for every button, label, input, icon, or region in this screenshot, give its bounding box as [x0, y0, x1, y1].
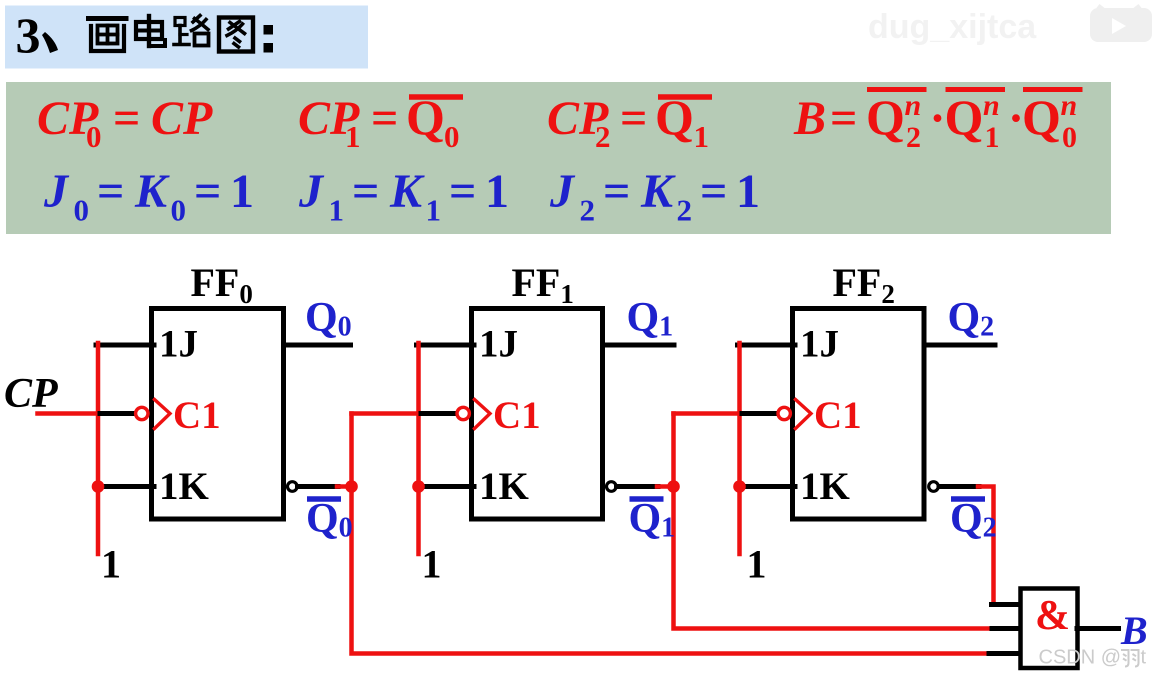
svg-text:1K: 1K	[159, 465, 210, 508]
svg-text:K: K	[134, 165, 170, 218]
svg-text:1: 1	[230, 165, 254, 218]
svg-text:K: K	[389, 165, 425, 218]
svg-text:FF0: FF0	[191, 260, 253, 309]
svg-text:Q: Q	[866, 89, 905, 145]
wire net Q1bar to C2 and AND gate	[674, 414, 994, 629]
wire Q0 output	[286, 343, 351, 348]
wire C0 clock stub	[100, 411, 136, 416]
svg-text:Q1: Q1	[627, 295, 674, 343]
svg-text:1: 1	[485, 165, 509, 218]
svg-text:0: 0	[74, 193, 90, 228]
svg-text:2: 2	[580, 193, 596, 228]
inverter bubble Q0bar	[288, 482, 298, 492]
svg-text:2: 2	[677, 193, 693, 228]
title hanzi tu (diagram)	[219, 18, 253, 52]
title fullwidth colon	[264, 25, 274, 35]
svg-text:=: =	[700, 165, 727, 218]
faint bilibili watermark top right	[868, 6, 1152, 46]
wire CP input red	[38, 411, 105, 416]
svg-text:1J: 1J	[479, 323, 518, 366]
wire K2 input	[738, 484, 796, 489]
svg-text:Q: Q	[945, 89, 984, 145]
svg-text:n: n	[905, 89, 922, 122]
flip-flop FF1 box	[472, 309, 603, 520]
wire J0 input	[96, 343, 154, 348]
circuit group	[38, 309, 1119, 669]
svg-text:Q2: Q2	[950, 496, 997, 544]
wire J1 input	[417, 343, 475, 348]
svg-text:&: &	[1035, 593, 1070, 639]
junction dot Q0bar node	[345, 480, 358, 493]
svg-text:1: 1	[329, 193, 345, 228]
svg-text:=: =	[830, 92, 857, 145]
junction dot node1 FF2	[733, 480, 746, 493]
svg-text:2: 2	[906, 121, 921, 154]
wire net Q2bar elbow to AND gate	[978, 487, 994, 605]
svg-text:Q0: Q0	[306, 496, 353, 544]
svg-text:Q1: Q1	[629, 496, 676, 544]
clock bubble FF2	[778, 407, 790, 419]
svg-text:CP: CP	[4, 371, 58, 417]
svg-text:=: =	[620, 92, 647, 145]
svg-text:1: 1	[101, 542, 121, 587]
AND gate U1 box	[1021, 589, 1078, 669]
svg-text:Q2: Q2	[948, 295, 995, 343]
wire net Q0bar to C1 and AND gate	[352, 414, 992, 654]
wire K0 input	[96, 484, 154, 489]
wire Q1bar stub black	[617, 484, 659, 489]
svg-text:2: 2	[595, 119, 611, 154]
dynamic clock chevron FF1	[475, 400, 491, 429]
junction dot Q1bar node	[667, 480, 680, 493]
wire C1 clock stub FF1	[421, 411, 457, 416]
svg-text:FF2: FF2	[833, 260, 895, 309]
clock bubble FF1	[457, 407, 469, 419]
wire CP2 horizontal to FF2 clock	[674, 411, 745, 416]
svg-text:1K: 1K	[800, 465, 851, 508]
svg-text:1K: 1K	[479, 465, 530, 508]
junction dot node1 FF0	[92, 480, 105, 493]
flip-flop FF2 box	[793, 309, 925, 520]
wire K1 input	[417, 484, 475, 489]
equation B = Q2bar^n Q1bar^n Q0bar^n	[793, 89, 1083, 154]
wire Q0bar stub black	[298, 484, 339, 489]
svg-text:·: ·	[930, 92, 946, 145]
wire Q2 output	[927, 343, 996, 348]
svg-text:C1: C1	[493, 394, 541, 437]
svg-text:=: =	[97, 165, 124, 218]
svg-text:1: 1	[985, 121, 1000, 154]
equation J0 = K0 = 1	[43, 165, 254, 228]
wire B output	[1077, 626, 1119, 631]
svg-text:1: 1	[345, 119, 361, 154]
svg-text:1: 1	[422, 542, 442, 587]
svg-text:0: 0	[171, 193, 187, 228]
svg-text:C1: C1	[173, 394, 221, 437]
svg-text:1: 1	[426, 193, 442, 228]
wire Q1 output	[605, 343, 674, 348]
title dun-comma 、	[42, 32, 58, 53]
junction dot node1 FF1	[412, 480, 425, 493]
svg-text:=: =	[352, 165, 379, 218]
svg-text:=: =	[603, 165, 630, 218]
svg-text:=: =	[449, 165, 476, 218]
svg-text:0: 0	[1062, 121, 1077, 154]
equation panel background	[6, 82, 1111, 234]
wire constant-1 vertical FF0	[96, 343, 101, 554]
equation CP0 = CP	[37, 92, 213, 154]
svg-text:CP: CP	[151, 92, 213, 145]
svg-text:t: t	[1141, 647, 1147, 669]
clock bubble FF0	[136, 407, 148, 419]
overline Q1bar	[630, 496, 664, 502]
wire Q0bar stub red	[337, 484, 352, 489]
svg-text:1: 1	[736, 165, 760, 218]
wire CP1 horizontal to FF1 clock	[352, 411, 424, 416]
svg-text:n: n	[1061, 89, 1078, 122]
wire constant-1 vertical FF1	[416, 343, 421, 554]
wire AND input top stub	[992, 602, 1023, 607]
svg-text:FF1: FF1	[512, 260, 574, 309]
svg-text:=: =	[113, 92, 140, 145]
svg-text:=: =	[371, 92, 398, 145]
svg-text:=: =	[194, 165, 221, 218]
dynamic clock chevron FF0	[155, 400, 171, 429]
equation CP2 = Q1bar	[547, 89, 712, 154]
svg-text:dug_xijtca: dug_xijtca	[868, 8, 1037, 46]
svg-text:Q: Q	[1022, 89, 1061, 145]
svg-text:3: 3	[16, 7, 41, 63]
title hanzi hua (draw)	[89, 19, 127, 52]
svg-text:1J: 1J	[800, 323, 839, 366]
flip-flop FF0 box	[152, 309, 284, 520]
title bar background	[5, 6, 368, 69]
dynamic clock chevron FF2	[796, 400, 812, 429]
svg-text:B: B	[793, 92, 826, 145]
svg-text:0: 0	[444, 119, 460, 154]
equation J1 = K1 = 1	[298, 165, 509, 228]
svg-text:CSDN @: CSDN @	[1039, 647, 1122, 669]
wire AND input middle stub	[992, 626, 1023, 631]
title hanzi lu (road)	[174, 16, 209, 46]
svg-text:Q0: Q0	[305, 295, 352, 343]
wire Q1bar stub red	[657, 484, 674, 489]
overline Q0bar	[307, 496, 341, 502]
overline Q2bar	[951, 496, 985, 502]
equation J2 = K2 = 1	[549, 165, 760, 228]
wire AND input bottom stub	[989, 651, 1023, 656]
svg-text:C1: C1	[814, 394, 862, 437]
wire Q2bar stub black	[939, 484, 979, 489]
svg-text:1: 1	[694, 119, 710, 154]
svg-text:1: 1	[747, 542, 767, 587]
equation CP1 = Q0bar	[298, 89, 463, 154]
svg-text:1J: 1J	[159, 323, 198, 366]
inverter bubble Q2bar	[929, 482, 939, 492]
wire C2 clock stub FF2	[742, 411, 778, 416]
title hanzi dian (electric)	[136, 16, 165, 46]
wire J2 input	[738, 343, 796, 348]
svg-text:J: J	[549, 165, 576, 218]
wire constant-1 vertical FF2	[737, 343, 742, 554]
svg-text:0: 0	[86, 119, 102, 154]
svg-text:K: K	[640, 165, 676, 218]
inverter bubble Q1bar	[607, 482, 617, 492]
svg-text:J: J	[298, 165, 325, 218]
svg-text:J: J	[43, 165, 70, 218]
svg-text:n: n	[983, 89, 1000, 122]
